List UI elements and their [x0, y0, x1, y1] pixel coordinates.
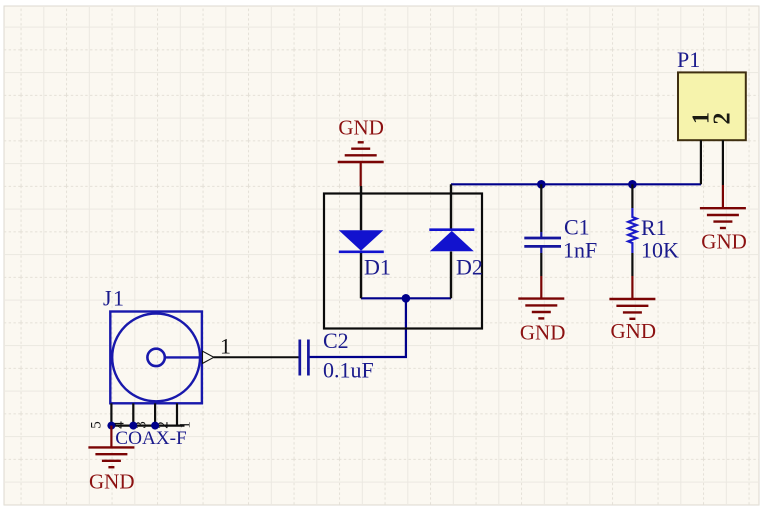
wire net VIN: main top wire from D2 to P1 pin 1: [451, 183, 701, 185]
J1 pin 2: [110, 403, 112, 425]
GND label below J1: [89, 469, 135, 493]
ground below C1: [518, 276, 564, 318]
svg-text:GND: GND: [701, 229, 747, 253]
svg-text:D1: D1: [364, 255, 391, 280]
J1 pin 1 arrow: [203, 351, 214, 363]
value COAX-F: [115, 428, 186, 449]
ground below J1: [88, 426, 134, 468]
P1 pin 2 number: [710, 113, 736, 125]
svg-text:C1: C1: [564, 215, 590, 240]
svg-text:C2: C2: [323, 328, 349, 353]
svg-text:2: 2: [710, 113, 736, 125]
resistor R1: [628, 208, 636, 253]
junction at C1 / main wire: [537, 180, 546, 189]
junction at R1 / main wire: [628, 180, 637, 189]
D2 top pin: [450, 184, 452, 229]
resistor R1 bottom pin: [631, 253, 633, 276]
J1 pin 5: [176, 403, 178, 425]
J1 pin 4: [154, 403, 156, 425]
GND label below P1: [701, 229, 747, 253]
svg-text:GND: GND: [89, 469, 135, 493]
diode D1: [339, 230, 384, 252]
wire from C2 to diode junction: [309, 298, 406, 357]
label R1: [641, 215, 667, 240]
capacitor C1: [524, 232, 561, 253]
junction J1 pin 3 / bus: [129, 422, 137, 430]
ground below P1: [700, 185, 746, 228]
label P1: [677, 47, 700, 72]
junction node below diodes: [402, 294, 411, 303]
GND label above diode block: [338, 116, 384, 140]
capacitor C2: [300, 340, 309, 376]
shield bus wire below J1: [111, 425, 184, 427]
P1 pin 2: [722, 140, 724, 185]
label J1: [103, 285, 126, 310]
P1 pin 1 number: [688, 112, 714, 124]
wire between D1 and D2 cathodes: [361, 297, 451, 299]
svg-text:1nF: 1nF: [563, 237, 597, 262]
D2 bottom pin: [450, 252, 452, 299]
svg-text:GND: GND: [611, 319, 657, 343]
J1 pin 3: [132, 403, 134, 425]
diode block outline: [324, 194, 482, 329]
capacitor C1 bottom pin: [540, 253, 542, 276]
connector P1 body: [678, 72, 746, 140]
J1 pin 2 number: [155, 421, 171, 429]
value 10K: [641, 238, 679, 263]
capacitor C1 top pin: [540, 184, 542, 232]
svg-text:GND: GND: [520, 320, 566, 344]
svg-text:5: 5: [88, 421, 104, 429]
J1 pin 1 end mark: [177, 421, 193, 429]
J1 pin 1 number: [220, 334, 231, 359]
svg-text:P1: P1: [677, 47, 700, 72]
J1 pin 4 number: [111, 421, 127, 429]
D1 bottom pin: [360, 252, 362, 298]
P1 pin 1: [700, 140, 702, 184]
svg-text:0.1uF: 0.1uF: [323, 358, 374, 383]
junction J1 pin 2 / bus: [107, 422, 115, 430]
J1 pin 5 number: [88, 421, 104, 429]
svg-text:1: 1: [220, 334, 231, 359]
svg-text:D2: D2: [456, 255, 483, 280]
diode D2: [429, 230, 474, 252]
junction J1 pin 4 / bus: [151, 422, 159, 430]
resistor R1 top pin: [631, 184, 633, 208]
label C2: [323, 328, 349, 353]
svg-text:R1: R1: [641, 215, 667, 240]
label D1: [364, 255, 391, 280]
svg-text:10K: 10K: [641, 238, 679, 263]
D1 top pin: [360, 186, 362, 230]
svg-text:GND: GND: [338, 116, 384, 140]
value 0.1uF: [323, 358, 374, 383]
ground below R1: [609, 276, 655, 319]
label D2: [456, 255, 483, 280]
svg-text:J1: J1: [103, 285, 126, 310]
ground above diode block (flipped): [338, 142, 384, 186]
GND label below C1: [520, 320, 566, 344]
value 1nF: [563, 237, 597, 262]
label C1: [564, 215, 590, 240]
svg-text:COAX-F: COAX-F: [115, 428, 186, 449]
wire from J1 pin 1 to C2: [214, 356, 301, 358]
J1 pin 3 number: [133, 421, 149, 429]
GND label below R1: [611, 319, 657, 343]
connector J1 body: [110, 312, 202, 404]
